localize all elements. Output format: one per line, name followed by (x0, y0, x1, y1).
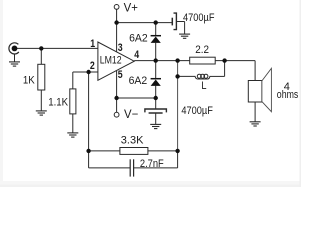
svg-text:5: 5 (118, 69, 123, 81)
svg-text:4700µF: 4700µF (183, 12, 214, 24)
svg-text:V+: V+ (124, 1, 138, 14)
svg-text:ohms: ohms (277, 89, 299, 101)
svg-text:1.1K: 1.1K (48, 97, 68, 109)
svg-text:3.3K: 3.3K (121, 135, 144, 147)
svg-text:4700µF: 4700µF (181, 105, 212, 117)
svg-text:2.7nF: 2.7nF (140, 159, 164, 171)
svg-text:3: 3 (118, 42, 123, 54)
svg-text:6A2: 6A2 (129, 32, 148, 44)
svg-text:6A2: 6A2 (129, 75, 148, 87)
svg-text:2.2: 2.2 (195, 45, 209, 57)
svg-text:LM12: LM12 (100, 54, 122, 66)
svg-text:2: 2 (90, 60, 95, 72)
svg-text:1K: 1K (23, 75, 35, 87)
svg-text:L: L (201, 81, 206, 93)
svg-text:1: 1 (90, 38, 95, 50)
svg-text:4: 4 (134, 49, 139, 61)
svg-text:V−: V− (124, 108, 138, 121)
